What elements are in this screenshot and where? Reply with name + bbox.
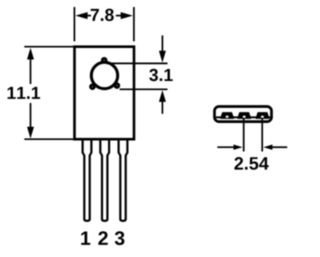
top view pin 2: [238, 113, 250, 118]
top view pin 3: [256, 113, 268, 118]
package top view outline: [215, 107, 272, 122]
dimension 11.1 line lower segment with down arrow: [27, 103, 34, 139]
dimension label 2.54: [234, 157, 268, 170]
dimension 3.1 down arrow: [159, 35, 166, 62]
bump bottom-right: [115, 84, 119, 88]
mounting hole circle: [91, 62, 117, 88]
dimension 2.54 arrow left: [217, 145, 242, 150]
pin label 1: [81, 231, 90, 244]
top view base line: [216, 116, 270, 118]
leg 3: [119, 139, 128, 221]
top view pin 1: [221, 113, 233, 118]
dimension label 11.1: [8, 87, 40, 99]
dimension 7.8 extension line right: [133, 7, 135, 41]
bump top: [102, 58, 106, 62]
dimension 3.1 leader line top: [107, 62, 168, 64]
dimension label 7.8: [91, 9, 114, 21]
package body front view: [75, 47, 135, 140]
dimension 2.54 arrow right: [263, 145, 287, 150]
dimension 11.1 line upper segment with up arrow: [27, 48, 34, 84]
leg 2: [100, 139, 109, 221]
dimension 11.1 extension line bottom: [24, 138, 74, 140]
dimension 7.8 extension line left: [73, 7, 75, 41]
pin label 3: [115, 231, 125, 245]
leg 1: [83, 139, 92, 221]
dimension label 3.1: [149, 69, 172, 81]
dimension 2.54 extension line right: [261, 118, 263, 152]
dimension 2.54 extension line left: [243, 118, 245, 152]
dimension 3.1 up arrow: [159, 90, 166, 114]
dimension 11.1 extension line top: [24, 46, 74, 48]
dimension 7.8 arrow left: [75, 12, 91, 19]
dimension 3.1 leader line bottom: [120, 88, 168, 90]
dimension 7.8 arrow right: [116, 12, 133, 19]
bump bottom-left: [91, 85, 95, 89]
pin label 2: [98, 231, 107, 245]
